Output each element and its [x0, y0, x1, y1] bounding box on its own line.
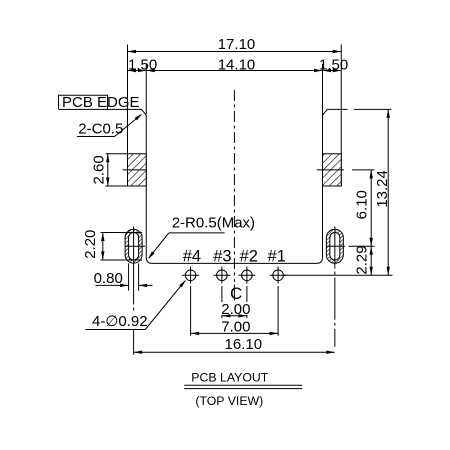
svg-text:16.10: 16.10: [225, 336, 263, 353]
label 4-diam0.92 underline: [85, 329, 145, 331]
right pad hatched: [323, 154, 342, 186]
label 2-R0.5(Max) underline: [169, 232, 225, 234]
svg-text:(TOP VIEW): (TOP VIEW): [195, 394, 263, 408]
dim 17.10 extension line left: [127, 45, 129, 187]
svg-text:PCB EDGE: PCB EDGE: [62, 94, 140, 111]
pin #2 hole: [242, 270, 253, 281]
svg-text:2.00: 2.00: [221, 301, 250, 318]
pin #1 hole: [273, 270, 284, 281]
pin #2 vertical centerline / extension: [246, 267, 248, 284]
pin #4 crosshair: [182, 274, 199, 276]
svg-text:2.60: 2.60: [91, 155, 108, 184]
dim 14.10 extension line left: [145, 64, 147, 114]
svg-text:6.10: 6.10: [353, 190, 370, 219]
pin #3 hole: [217, 270, 228, 281]
svg-text:2.20: 2.20: [82, 230, 99, 259]
dim 17.10 extension line right: [340, 45, 342, 187]
dim 2.60 line: [107, 154, 109, 186]
dim 2.20 line: [102, 232, 104, 260]
svg-text:0.80: 0.80: [94, 270, 123, 287]
dim 16.10 line: [134, 351, 335, 353]
vertical centerline: [233, 90, 235, 282]
svg-text:7.00: 7.00: [221, 318, 250, 335]
right slot horizontal centerline: [326, 245, 345, 247]
svg-text:1.50: 1.50: [128, 57, 157, 74]
pin #4 hole: [185, 270, 196, 281]
svg-text:2-R0.5(Max): 2-R0.5(Max): [172, 214, 255, 231]
svg-text:#1: #1: [268, 248, 286, 266]
left slot horizontal centerline: [125, 245, 145, 247]
left pad centerline: [123, 169, 148, 171]
svg-text:1.50: 1.50: [319, 57, 348, 74]
label 2-C0.5 leader: [115, 115, 142, 137]
svg-text:#2: #2: [240, 248, 258, 266]
dim 2.29 line: [370, 246, 372, 275]
dim 2.20 extension lines: [101, 231, 143, 233]
pcb edge extension line right: [354, 108, 391, 110]
dim 0.80 line with outside arrows: [96, 284, 129, 286]
svg-text:14.10: 14.10: [218, 57, 256, 74]
pin #4 vertical centerline / extension: [190, 267, 192, 284]
dim 2.00 line: [222, 315, 247, 317]
PCB EDGE label box: [59, 95, 108, 109]
svg-text:#4: #4: [183, 248, 201, 266]
right slot hatched ring: [326, 229, 343, 263]
pin #3 crosshair: [213, 274, 230, 276]
svg-text:#3: #3: [213, 248, 231, 266]
dim row line: [128, 70, 342, 72]
svg-text:4-∅0.92: 4-∅0.92: [92, 313, 148, 330]
pin #1 crosshair: [270, 274, 287, 276]
svg-text:2.29: 2.29: [353, 245, 370, 274]
left slot hatched ring: [125, 229, 142, 263]
right slot vertical centerline: [334, 227, 336, 355]
label 2-C0.5 underline: [77, 136, 115, 138]
left pad hatched: [128, 154, 147, 186]
dim 14.10 extension line right: [322, 64, 324, 115]
dim 6.10 line: [370, 170, 372, 246]
pin row extension line to right dims: [284, 274, 393, 276]
label 4-diam0.92 leader: [145, 281, 185, 330]
pin #3 vertical centerline / extension: [221, 267, 223, 284]
label 4-diam0.92 white backing: [91, 314, 148, 329]
slot centerline extension to 2.29 dim: [349, 245, 375, 247]
svg-text:17.10: 17.10: [218, 36, 256, 53]
dim 2.60 extension lines: [106, 153, 128, 155]
pcb edge outline: [59, 109, 348, 263]
dim 13.24 line: [387, 109, 389, 275]
svg-text:13.24: 13.24: [374, 170, 391, 208]
title double underline: [184, 384, 302, 386]
dim 7.00 line: [191, 332, 279, 334]
right pad centerline: [317, 169, 344, 171]
left slot vertical centerline: [133, 227, 135, 312]
pad centerline extension to 6.10 dim: [352, 169, 375, 171]
dim 17.10 line: [128, 51, 342, 53]
dim 0.80 extension lines: [128, 263, 130, 290]
label 2-R0.5(Max) leader: [149, 233, 169, 258]
svg-text:PCB LAYOUT: PCB LAYOUT: [191, 371, 268, 385]
pin #1 vertical centerline / extension: [277, 267, 279, 284]
pin #2 crosshair: [238, 274, 255, 276]
